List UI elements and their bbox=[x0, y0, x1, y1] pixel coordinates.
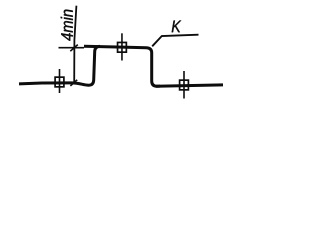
dimension extension line bbox=[59, 47, 85, 49]
node K label bbox=[172, 21, 181, 33]
wire pipe lower-left run with riser 1 bend up bbox=[19, 46, 100, 85]
dimension tick lower bbox=[70, 80, 77, 86]
fitting symbol 2 (crossed box on upper pipe) bbox=[118, 33, 127, 60]
dimension line vertical bbox=[74, 6, 76, 84]
wire pipe upper run with riser 2 bend down bbox=[84, 46, 160, 86]
dimension tick upper bbox=[70, 45, 78, 52]
wire pipe lower-right run bbox=[156, 85, 223, 86]
fitting symbol 3 (crossed box on lower-right pipe) bbox=[180, 71, 189, 99]
dimension text 4min (rotated) bbox=[61, 10, 73, 41]
fitting symbol 1 (crossed box on lower-left pipe) bbox=[55, 69, 64, 93]
leader line for node K bbox=[152, 35, 198, 47]
